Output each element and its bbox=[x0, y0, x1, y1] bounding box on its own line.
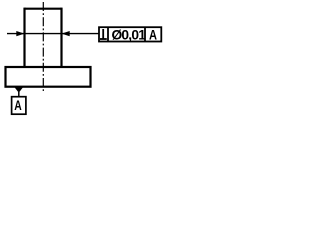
datum triangle (filled) on flange bottom bbox=[14, 87, 23, 93]
part outline: shaft (vertical boss) bbox=[6, 8, 91, 87]
frame divider 1 bbox=[107, 27, 109, 41]
centerline (axis, dash-dot) bbox=[42, 2, 44, 93]
svg-text:Ø0,01: Ø0,01 bbox=[112, 28, 147, 43]
perpendicularity symbol bbox=[100, 29, 107, 39]
shaft top edge bbox=[25, 8, 62, 10]
datum stem bbox=[18, 92, 20, 97]
datum label box bbox=[12, 97, 26, 115]
svg-text:A: A bbox=[14, 97, 21, 113]
frame divider 2 bbox=[144, 27, 146, 41]
shaft right edge bbox=[60, 8, 62, 67]
left arrowhead bbox=[16, 31, 24, 36]
dimension line through shaft to frame bbox=[7, 33, 99, 35]
feature control frame outer box bbox=[99, 27, 161, 41]
shaft left edge bbox=[23, 8, 25, 67]
right arrowhead bbox=[62, 31, 70, 36]
svg-text:A: A bbox=[149, 27, 157, 42]
flange (base plate) outline bbox=[6, 67, 91, 87]
